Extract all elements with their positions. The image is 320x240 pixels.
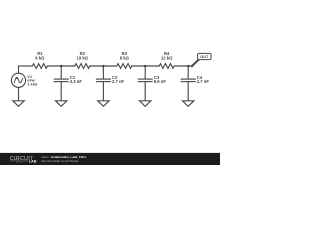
svg-text:2.7 nF: 2.7 nF (112, 79, 125, 84)
svg-text:1 kHz: 1 kHz (27, 82, 37, 87)
svg-text:OUT: OUT (200, 55, 209, 59)
svg-text:3.3 nF: 3.3 nF (70, 79, 83, 84)
svg-text:9 kΩ: 9 kΩ (35, 55, 45, 60)
svg-text:http://circuitlab.com/c/7kybav: http://circuitlab.com/c/7kybav (41, 159, 79, 163)
svg-text:19 kΩ: 19 kΩ (77, 55, 89, 60)
svg-text:12 kΩ: 12 kΩ (161, 55, 173, 60)
svg-text:2.7 nF: 2.7 nF (197, 79, 210, 84)
svg-text:8 kΩ: 8 kΩ (120, 55, 130, 60)
svg-text:5.6 nF: 5.6 nF (154, 79, 167, 84)
svg-text:LAB: LAB (29, 160, 37, 164)
